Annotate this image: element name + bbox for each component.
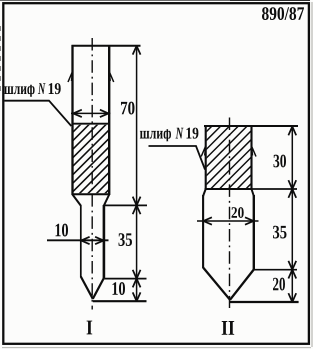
body left edge pin II	[202, 195, 204, 268]
extension line bottom pin II	[230, 301, 299, 303]
leader line shlif pin II	[149, 146, 206, 170]
surface finish mark left pin I	[68, 72, 73, 83]
taper left pin I	[81, 277, 93, 299]
dimension line pin I	[136, 46, 138, 301]
pin II top line	[204, 125, 298, 127]
narrow left edge pin I	[80, 205, 82, 277]
surface finish mark right pin I	[109, 72, 114, 83]
pin I wide left edge	[71, 45, 73, 195]
width dim 10 pin I	[56, 224, 69, 237]
shoulder left pin II	[203, 189, 206, 196]
taper right pin I	[93, 278, 104, 299]
hatch bottom line pin I	[72, 193, 110, 195]
center line pin II	[229, 118, 231, 309]
shoulder right pin I	[104, 195, 109, 206]
label shlif N 19 pin I	[4, 83, 34, 98]
extension line 35/10 pin I	[105, 278, 147, 280]
extension line 30/35 pin II	[252, 188, 298, 190]
arrows dim pin I	[133, 46, 141, 55]
hatch bottom line pin II	[205, 188, 252, 190]
arrows dim pin II	[288, 127, 296, 136]
scan edge bottom	[2, 347, 311, 349]
label shlif N 19 pin II	[140, 127, 171, 142]
width dim 20 pin II	[232, 207, 244, 218]
shoulder right pin II	[252, 189, 254, 196]
surface finish mark left pin II	[201, 146, 206, 157]
surface finish mark right pin II	[252, 146, 257, 157]
dim text 10 bottom pin I	[113, 282, 126, 295]
dim text 30	[274, 155, 287, 168]
extension line 35/20 pin II	[254, 269, 297, 271]
extension line bottom pin I	[93, 300, 147, 302]
body right edge pin II	[253, 195, 255, 270]
dim text 70	[121, 102, 135, 115]
center line pin I	[91, 38, 93, 310]
shoulder left pin I	[73, 195, 81, 206]
pin I wide right edge	[108, 45, 110, 195]
pin I top line	[72, 45, 141, 47]
scan edge top left	[0, 0, 230, 2]
label II	[222, 321, 235, 335]
scan edge top right	[230, 0, 310, 1]
narrow right edge pin I	[103, 205, 106, 278]
taper right pin II	[230, 270, 254, 300]
hatch left edge pin II	[205, 126, 207, 190]
taper left pin II	[203, 268, 230, 300]
extension line 70/35 pin I	[104, 204, 147, 206]
hatch top line pin I	[72, 123, 110, 125]
width arrow pin I top	[71, 112, 111, 114]
title 890/87	[262, 7, 304, 20]
hatch right edge pin II	[250, 126, 252, 190]
scan edge left	[0, 26, 2, 92]
dim text 35 pin I	[119, 233, 133, 246]
dimension line pin II	[291, 126, 293, 302]
leader line shlif pin I	[5, 101, 72, 126]
scan edge right	[311, 2, 313, 347]
hatch area pin I	[6, 119, 180, 199]
dim text 20 right pin II	[273, 278, 285, 291]
hatch area pin II	[143, 120, 315, 195]
label I	[87, 321, 93, 335]
dim text 35 pin II	[273, 226, 287, 239]
